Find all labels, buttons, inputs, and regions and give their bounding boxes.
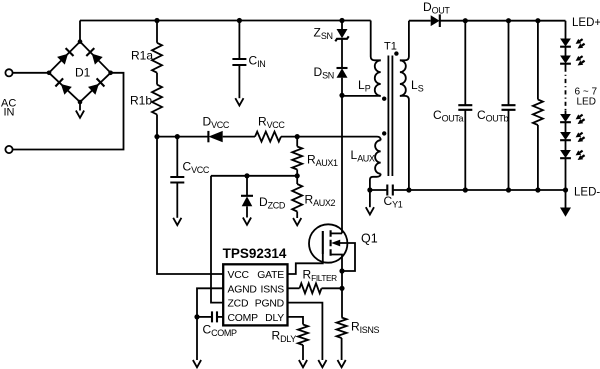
bridge diode upper-right	[86, 48, 102, 65]
resistor RAUX2	[292, 176, 335, 218]
node: divider top	[295, 134, 300, 139]
LED D2	[560, 56, 585, 66]
ground arrow: primary return	[366, 207, 374, 214]
diode DSN	[314, 65, 348, 81]
svg-text:ZCD: ZCD	[228, 299, 249, 310]
wire: AGND ground stub	[196, 317, 198, 360]
ground arrow: CVCC return	[173, 218, 181, 225]
node: COUTb bottom	[506, 187, 511, 192]
ground arrow: bridge return	[76, 111, 84, 118]
resistor RAUX1	[292, 137, 338, 176]
diode DOUT	[409, 0, 450, 27]
svg-text:AGND: AGND	[228, 284, 257, 295]
wire: LED- stub	[565, 190, 567, 208]
capacitor COUTa	[433, 21, 472, 190]
node: LS phase dot	[394, 51, 398, 55]
node: rail junction ZSN	[339, 18, 344, 23]
node: divider mid (ZCD)	[295, 173, 300, 178]
bridge diode lower-right	[88, 78, 104, 94]
node: bridge right vertex	[108, 71, 113, 76]
node: bridge top vertex	[78, 39, 83, 44]
svg-text:ISNS: ISNS	[261, 284, 285, 295]
wire: secondary ground rail	[409, 189, 566, 191]
wire: AC upper lead	[13, 72, 49, 74]
node: primary-side ground node	[367, 187, 372, 192]
wire: DVCC anode to RVCC	[223, 136, 255, 138]
capacitor CVCC	[170, 137, 210, 218]
wire: ISNS pin lead	[288, 287, 300, 289]
capacitor CCOMP	[197, 311, 237, 338]
wire: source to ISNS node	[341, 271, 343, 288]
resistor R1b	[130, 85, 162, 115]
node: bleeder bottom	[535, 187, 540, 192]
svg-text:PGND: PGND	[255, 299, 284, 310]
node: bridge bottom vertex	[78, 100, 83, 105]
node: LP phase dot	[382, 97, 386, 101]
wire: aux feed from divider node to LAUX	[297, 136, 377, 138]
svg-text:R1a: R1a	[131, 49, 153, 63]
svg-text:Q1: Q1	[361, 232, 378, 246]
resistor R1a	[131, 21, 162, 73]
node: Q1 source junction	[339, 268, 344, 273]
ground arrow: AGND	[193, 360, 201, 367]
resistor RFILTER	[300, 268, 343, 294]
node: bridge left vertex	[47, 71, 52, 76]
ground arrow: CIN return	[235, 98, 243, 105]
ground arrow: DZCD return	[243, 218, 251, 225]
wire: GATE lead to Q1 gate	[288, 254, 323, 274]
winding LAUX auxiliary	[351, 137, 381, 190]
LED D3	[560, 114, 585, 124]
wire: ZCD net horizontal	[211, 175, 297, 177]
node: COUTb top	[506, 18, 511, 23]
wire: LED chain dash-dot	[565, 68, 567, 111]
wire: ZCD net vertical to pin	[211, 176, 223, 303]
node: AGND/COMP ground net	[194, 314, 199, 319]
zener ZSN	[314, 21, 349, 42]
node: rail junction R1a	[154, 18, 159, 23]
winding LP primary	[342, 21, 381, 96]
wire: AGND pin lead	[197, 288, 223, 317]
LED D1	[560, 39, 585, 49]
node: ISNS/RISNS junction	[339, 286, 344, 291]
svg-text:LED+: LED+	[572, 17, 600, 29]
bridge diode upper-left	[57, 48, 73, 65]
wire: R1b down to VCC node and on to VCC pin	[157, 115, 223, 275]
zener DZCD	[241, 176, 286, 218]
LED D4	[560, 132, 585, 142]
wire: VCC node to DVCC cathode	[157, 136, 208, 138]
wire: LED chain segments	[565, 21, 567, 190]
svg-text:VCC: VCC	[228, 270, 250, 281]
svg-text:IN: IN	[4, 107, 15, 119]
diode DVCC	[203, 115, 230, 143]
wire: PGND pin lead	[288, 303, 323, 360]
svg-text:GATE: GATE	[257, 270, 284, 281]
wire: drain net vertical to Q1	[341, 95, 343, 233]
terminal: AC input lower	[5, 146, 12, 153]
wire: RVCC to aux divider node	[281, 136, 297, 138]
svg-text:LED: LED	[577, 97, 596, 108]
wire: LAUX bottom to CY1	[370, 189, 387, 191]
resistor RDLY	[272, 317, 309, 360]
resistor RISNS	[337, 288, 380, 360]
transformer T1 core	[384, 41, 397, 177]
ground arrow: RAUX2 return	[293, 218, 301, 225]
ground arrow: RISNS	[338, 360, 346, 367]
svg-text:COMP: COMP	[228, 313, 259, 324]
svg-text:D1: D1	[75, 66, 91, 80]
winding LS secondary	[400, 21, 424, 190]
wire: DSN to primary bottom node	[341, 78, 343, 96]
wire: primary ground stub	[369, 190, 371, 207]
ground arrow: RDLY	[299, 360, 307, 367]
svg-text:LED-: LED-	[574, 186, 600, 198]
capacitor CY1	[384, 185, 409, 210]
node: DZCD tap	[244, 173, 249, 178]
resistor RVCC	[255, 115, 285, 142]
capacitor COUTb	[477, 21, 516, 190]
node: COUTa top	[463, 18, 468, 23]
node: COUTa bottom	[463, 187, 468, 192]
node: CVCC tap	[175, 134, 180, 139]
node: LS bottom on rail	[406, 187, 411, 192]
node: rail junction CIN	[237, 18, 242, 23]
wire: bridge top stub	[79, 21, 81, 42]
svg-text:TPS92314: TPS92314	[223, 246, 287, 261]
bridge rectifier D1 diamond	[49, 42, 111, 102]
IC U1 TPS92314 box	[223, 246, 288, 325]
wire: top rail (rectified DC bus)	[80, 20, 371, 22]
wire: bridge bottom stub	[79, 102, 81, 111]
svg-text:DLY: DLY	[265, 313, 284, 324]
transistor Q1 MOSFET	[309, 224, 378, 271]
ground arrow: PGND	[318, 360, 326, 367]
node: LED string bottom junction	[563, 187, 568, 192]
wire: AC lower lead	[13, 73, 124, 150]
svg-text:R1b: R1b	[130, 94, 152, 108]
wire: output rail to LED+	[440, 20, 566, 22]
node: LAUX phase dot	[382, 131, 386, 135]
LED D5	[560, 150, 585, 160]
ground arrow: LED- filled	[560, 208, 571, 217]
terminal: AC input upper	[5, 69, 12, 76]
node: VCC line at R1 chain	[154, 134, 159, 139]
node: primary bottom / drain net	[339, 93, 344, 98]
svg-text:T1: T1	[384, 41, 397, 53]
capacitor CIN	[232, 21, 265, 99]
node: bleeder top	[535, 18, 540, 23]
wire: R1a to R1b	[156, 73, 158, 85]
bridge diode lower-left	[55, 78, 71, 94]
wire: ZSN to DSN	[341, 40, 343, 69]
resistor bleeder (unlabeled)	[533, 21, 543, 190]
